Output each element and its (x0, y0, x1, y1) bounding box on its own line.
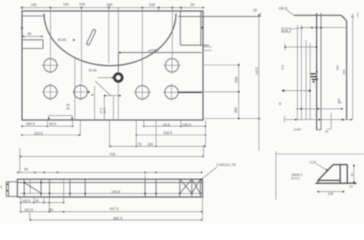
top dimension chain (21, 7, 204, 9)
svg-text:2-M12x1.75: 2-M12x1.75 (217, 163, 236, 167)
svg-text:150: 150 (147, 143, 153, 147)
detail dims (318, 191, 345, 193)
row B (22, 134, 80, 136)
bottom bits of side view (330, 120, 332, 130)
thin vertical extension lines main view (22, 6, 181, 120)
svg-text:140: 140 (63, 3, 69, 7)
svg-text:25: 25 (325, 129, 329, 133)
light verticals left of view (297, 25, 310, 120)
svg-text:162.5: 162.5 (279, 6, 288, 10)
extension verticals below main view (20, 120, 206, 173)
svg-text:90.5: 90.5 (49, 122, 56, 126)
svg-text:219: 219 (281, 65, 285, 70)
bottom bracket dim (49, 115, 72, 117)
dim hole to right edge (thick dark) (179, 91, 203, 93)
dim 50 left (23, 35, 43, 37)
svg-text:C2: C2 (349, 185, 353, 189)
svg-text:50: 50 (28, 32, 32, 36)
row A (22, 125, 73, 127)
svg-text:228: 228 (149, 3, 155, 7)
svg-text:32.5: 32.5 (102, 108, 106, 114)
svg-text:S=2:1: S=2:1 (291, 177, 300, 181)
row 75/150 (110, 145, 206, 147)
svg-text:147.5: 147.5 (24, 208, 33, 212)
main front view outline (22, 11, 203, 120)
svg-text:0.05: 0.05 (282, 29, 288, 33)
svg-text:160.5: 160.5 (26, 122, 35, 126)
long line y119.6 (284, 119, 352, 121)
right vertical dim (352, 14, 354, 120)
svg-text:145: 145 (31, 3, 37, 7)
svg-text:C10: C10 (310, 160, 316, 164)
X diagonals right cells (180, 179, 201, 193)
small dim 104-124 at y95.5 (104, 95, 121, 97)
bottom strip view (17, 179, 202, 197)
svg-text:162.5: 162.5 (22, 199, 30, 203)
svg-text:725: 725 (109, 152, 115, 156)
svg-text:1415: 1415 (255, 67, 259, 75)
top step line right extending to right tick (178, 15, 261, 17)
svg-text:650: 650 (235, 77, 239, 83)
big arc cutout (44, 14, 176, 66)
svg-text:100: 100 (328, 192, 334, 196)
svg-text:160.5: 160.5 (182, 123, 191, 127)
svg-text:90.5: 90.5 (163, 123, 170, 127)
holes r6 with crosshairs (44, 59, 179, 99)
svg-text:50: 50 (49, 208, 53, 212)
svg-text:355: 355 (342, 69, 346, 74)
svg-text:⌀10H7: ⌀10H7 (149, 49, 160, 53)
dim above strip (18, 171, 203, 173)
svg-text:80: 80 (66, 107, 70, 111)
slanted slot (86, 29, 96, 45)
svg-text:60: 60 (24, 168, 28, 172)
chain dim y27.6 (302, 27, 347, 29)
svg-text:240.5: 240.5 (112, 190, 121, 194)
svg-text:285: 285 (234, 107, 238, 113)
svg-text:547.5: 547.5 (110, 207, 119, 211)
svg-text:30: 30 (278, 102, 282, 106)
dim y90.7 (282, 90, 311, 92)
detail shape (315, 165, 356, 184)
svg-text:30: 30 (35, 199, 39, 203)
center ring (pin hole) (114, 74, 122, 82)
right-of-view dimension columns (204, 64, 240, 66)
ring leader (117, 53, 119, 73)
top step line left (22, 15, 44, 17)
svg-text:25: 25 (253, 9, 257, 13)
diagonal inside strip (25, 183, 41, 193)
extension verticals below strip (21, 197, 203, 220)
rows below strip (21, 202, 64, 204)
svg-text:90: 90 (191, 3, 195, 7)
svg-text:10 h6: 10 h6 (89, 69, 97, 73)
arrows near hole 80.7 (88, 91, 90, 93)
dim y47.1 (285, 46, 318, 48)
svg-text:40: 40 (350, 173, 354, 177)
left edge dim dot (21, 27, 23, 29)
svg-text:345: 345 (336, 65, 340, 70)
svg-text:R140: R140 (58, 38, 67, 42)
dim y108.8 (296, 108, 343, 110)
row 725 (20, 155, 204, 157)
svg-text:310.5: 310.5 (34, 131, 43, 135)
svg-text:2x45°: 2x45° (294, 128, 303, 132)
svg-text:330.5: 330.5 (163, 131, 172, 135)
left pocket (22, 39, 43, 41)
left end block (6, 182, 17, 197)
dots on strip (23, 182, 201, 195)
internal verticals (24, 179, 200, 197)
svg-text:75: 75 (138, 143, 142, 147)
dark cluster (311, 71, 318, 83)
detail view boundary (276, 153, 364, 155)
svg-text:280: 280 (107, 3, 113, 7)
svg-text:84: 84 (337, 98, 341, 102)
tick 25 at 260 (260, 12, 262, 16)
svg-text:105: 105 (79, 3, 85, 7)
top-right window (179, 11, 181, 45)
svg-text:682.5: 682.5 (113, 216, 122, 220)
